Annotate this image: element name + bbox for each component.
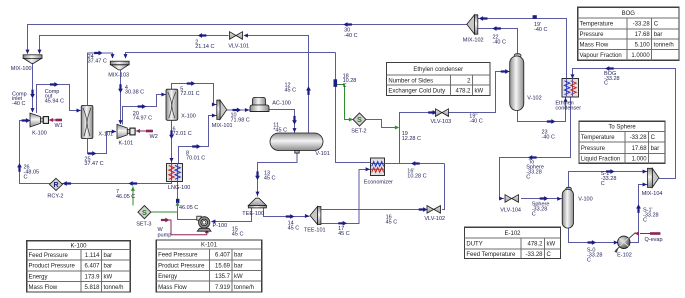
svg-text:Temperature: Temperature	[581, 135, 615, 141]
svg-text:C: C	[587, 257, 591, 263]
svg-text:17.68: 17.68	[635, 32, 651, 38]
svg-text:To Sphere: To Sphere	[608, 124, 636, 130]
svg-text:Pressure: Pressure	[580, 32, 605, 38]
svg-text:6.407: 6.407	[215, 253, 231, 259]
svg-text:478.2: 478.2	[455, 89, 471, 95]
svg-text:-33.28: -33.28	[630, 135, 648, 141]
svg-text:45 C: 45 C	[386, 219, 398, 225]
svg-text:-40 C: -40 C	[534, 27, 547, 33]
svg-text:DUTY: DUTY	[466, 242, 482, 248]
svg-text:S: S	[142, 210, 147, 217]
svg-text:37.47 C: 37.47 C	[88, 59, 107, 65]
svg-text:Pressure: Pressure	[581, 146, 606, 152]
svg-text:-40 C: -40 C	[12, 101, 25, 107]
svg-text:Feed Temperature: Feed Temperature	[466, 252, 516, 258]
svg-text:kW: kW	[547, 242, 556, 248]
svg-text:bar: bar	[234, 253, 243, 259]
svg-text:Energy: Energy	[158, 274, 177, 280]
svg-text:MIX-101: MIX-101	[212, 123, 233, 129]
svg-text:tonne/h: tonne/h	[234, 285, 254, 291]
svg-text:W2: W2	[150, 134, 158, 140]
svg-text:71.98 C: 71.98 C	[231, 117, 250, 123]
svg-text:C: C	[601, 181, 605, 187]
svg-text:bar: bar	[654, 32, 663, 38]
svg-text:10.28 C: 10.28 C	[407, 173, 426, 179]
svg-text:1.114: 1.114	[85, 253, 100, 259]
svg-text:45 C: 45 C	[285, 88, 297, 94]
svg-text:Product Pressure: Product Pressure	[29, 264, 76, 270]
svg-text:45 C: 45 C	[288, 226, 300, 232]
svg-text:C: C	[547, 252, 552, 258]
svg-text:R: R	[53, 182, 58, 189]
svg-text:Feed Pressure: Feed Pressure	[29, 253, 69, 259]
svg-text:21.14 C: 21.14 C	[195, 44, 214, 50]
svg-text:MIX-103: MIX-103	[108, 73, 129, 79]
svg-text:Economizer: Economizer	[364, 180, 393, 186]
svg-text:5.818: 5.818	[84, 285, 100, 291]
svg-text:S: S	[357, 117, 362, 124]
svg-text:VLV-103: VLV-103	[431, 119, 452, 125]
svg-text:K-101: K-101	[201, 243, 218, 249]
svg-text:Temperature: Temperature	[580, 22, 614, 28]
svg-text:C: C	[654, 22, 659, 28]
svg-text:478.2: 478.2	[527, 242, 543, 248]
svg-text:1.000: 1.000	[632, 157, 648, 163]
svg-text:P-100: P-100	[213, 223, 228, 229]
svg-text:bar: bar	[104, 264, 113, 270]
svg-text:X-100: X-100	[181, 113, 196, 119]
svg-text:135.7: 135.7	[215, 274, 231, 280]
svg-text:VLV-104: VLV-104	[500, 207, 521, 213]
svg-text:1.0000: 1.0000	[631, 53, 650, 59]
svg-text:6.407: 6.407	[84, 264, 100, 270]
svg-text:E-102: E-102	[504, 231, 521, 237]
svg-text:SET-2: SET-2	[351, 129, 366, 135]
svg-text:5.100: 5.100	[635, 43, 651, 49]
svg-text:C: C	[532, 212, 536, 218]
svg-text:W1: W1	[55, 123, 63, 129]
svg-text:pump: pump	[158, 232, 172, 238]
svg-text:46.05 C: 46.05 C	[179, 205, 198, 211]
svg-text:74.97 C: 74.97 C	[133, 116, 152, 122]
svg-text:C: C	[24, 174, 28, 180]
svg-text:C: C	[651, 135, 656, 141]
svg-text:V-102: V-102	[527, 96, 541, 102]
svg-text:K-100: K-100	[70, 243, 87, 249]
svg-text:MIX-100: MIX-100	[11, 66, 32, 72]
svg-text:kW: kW	[234, 274, 243, 280]
svg-text:C: C	[604, 81, 608, 87]
svg-text:kW: kW	[104, 274, 113, 280]
svg-text:X-101: X-101	[98, 132, 113, 138]
svg-text:LNG-100: LNG-100	[168, 185, 190, 191]
svg-text:Ethylen condenser: Ethylen condenser	[413, 67, 463, 73]
svg-text:72.01 C: 72.01 C	[173, 131, 192, 137]
svg-text:V-101: V-101	[315, 151, 329, 157]
svg-text:17.68: 17.68	[632, 146, 648, 152]
svg-text:Mass Flow: Mass Flow	[29, 285, 58, 291]
svg-text:15.69: 15.69	[215, 263, 231, 269]
svg-text:C: C	[526, 175, 530, 181]
svg-text:SET-3: SET-3	[136, 221, 151, 227]
svg-text:Product Pressure: Product Pressure	[158, 263, 205, 269]
svg-text:V-100: V-100	[578, 197, 592, 203]
svg-text:-40 C: -40 C	[469, 119, 482, 125]
svg-text:MIX-104: MIX-104	[642, 191, 663, 197]
svg-text:Q-evap: Q-evap	[645, 237, 663, 243]
svg-text:K-101: K-101	[119, 141, 134, 147]
svg-text:Vapour Fraction: Vapour Fraction	[580, 53, 622, 59]
svg-text:MIX-102: MIX-102	[463, 38, 484, 44]
svg-text:K-100: K-100	[32, 131, 47, 137]
svg-text:12.28 C: 12.28 C	[402, 136, 421, 142]
svg-text:45 C: 45 C	[338, 231, 350, 237]
svg-text:Number of Sides: Number of Sides	[388, 78, 433, 84]
svg-text:-40 C: -40 C	[493, 40, 506, 46]
svg-text:bar: bar	[234, 263, 243, 269]
svg-text:45 C: 45 C	[264, 176, 276, 182]
svg-text:7.919: 7.919	[215, 285, 231, 291]
svg-text:tonne/h: tonne/h	[654, 43, 674, 49]
svg-text:C: C	[643, 217, 647, 223]
svg-text:46.05 C: 46.05 C	[116, 194, 135, 200]
svg-text:-40 C: -40 C	[344, 33, 357, 39]
svg-text:173.9: 173.9	[84, 274, 100, 280]
svg-text:30.38 C: 30.38 C	[125, 90, 144, 96]
svg-text:45.94 C: 45.94 C	[45, 98, 64, 104]
svg-text:TEE-100: TEE-100	[242, 211, 264, 217]
svg-text:-33.28: -33.28	[633, 22, 651, 28]
svg-text:Mass Flow: Mass Flow	[580, 43, 609, 49]
svg-text:TEE-101: TEE-101	[304, 227, 326, 233]
svg-text:45 C: 45 C	[232, 232, 244, 238]
svg-text:Exchanger Cold Duty: Exchanger Cold Duty	[388, 89, 445, 95]
svg-text:37.47 C: 37.47 C	[84, 161, 103, 167]
svg-text:C: C	[343, 83, 347, 89]
svg-text:bar: bar	[651, 146, 660, 152]
svg-text:E-102: E-102	[617, 252, 632, 258]
svg-text:tonne/h: tonne/h	[104, 285, 124, 291]
svg-text:kW: kW	[475, 89, 484, 95]
svg-text:VLV-102: VLV-102	[424, 216, 445, 222]
svg-text:VLV-101: VLV-101	[228, 43, 249, 49]
svg-text:AC-100: AC-100	[272, 100, 291, 106]
svg-text:Feed Pressure: Feed Pressure	[158, 253, 198, 259]
svg-text:condenser: condenser	[555, 106, 581, 112]
svg-text:72.01 C: 72.01 C	[180, 91, 199, 97]
svg-text:Mass Flow: Mass Flow	[158, 285, 187, 291]
svg-text:-40 C: -40 C	[542, 135, 555, 141]
svg-text:Energy: Energy	[29, 274, 48, 280]
svg-text:-33.28: -33.28	[525, 252, 543, 258]
svg-text:Liquid Fraction: Liquid Fraction	[581, 157, 620, 163]
svg-text:bar: bar	[104, 253, 113, 259]
svg-text:RCY-2: RCY-2	[47, 193, 63, 199]
svg-text:70.01 C: 70.01 C	[186, 155, 205, 161]
svg-text:BOG: BOG	[622, 11, 636, 17]
svg-text:*45 C: *45 C	[273, 128, 287, 134]
